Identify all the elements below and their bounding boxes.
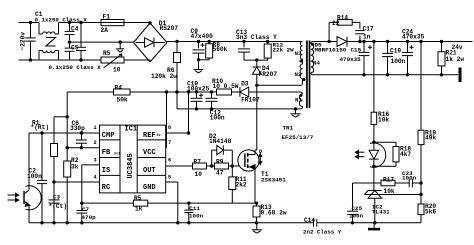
svg-text:MBRF10150: MBRF10150 [315, 47, 347, 54]
svg-text:5: 5 [168, 175, 171, 181]
svg-text:50k: 50k [117, 97, 128, 104]
svg-text:EF25/13/7: EF25/13/7 [282, 134, 314, 141]
svg-text:IS: IS [102, 167, 110, 175]
svg-text:FR107: FR107 [241, 97, 260, 104]
svg-text:R9: R9 [216, 159, 224, 166]
svg-text:6: 6 [168, 157, 171, 163]
svg-text:100x25: 100x25 [187, 85, 210, 92]
svg-text:F1: F1 [103, 14, 111, 21]
svg-text:47: 47 [216, 170, 224, 177]
svg-text:5k6: 5k6 [425, 209, 436, 216]
svg-text:24v: 24v [452, 44, 463, 51]
svg-text:2k2: 2k2 [236, 182, 247, 189]
svg-text:470x35: 470x35 [340, 56, 362, 63]
svg-text:UC3845: UC3845 [127, 153, 135, 178]
svg-text:R5: R5 [134, 195, 142, 202]
svg-text:47x400: 47x400 [191, 33, 214, 40]
svg-text:22k 2W: 22k 2W [273, 47, 295, 54]
svg-text:C17: C17 [363, 26, 374, 33]
svg-text:N2: N2 [295, 71, 302, 78]
svg-text:FB: FB [102, 149, 111, 157]
svg-text:10: 10 [195, 171, 203, 178]
svg-text:470x35: 470x35 [402, 34, 425, 41]
svg-text:REF: REF [143, 132, 156, 140]
svg-text:C7: C7 [82, 206, 90, 213]
svg-text:560k: 560k [213, 46, 228, 53]
svg-text:5v: 5v [157, 134, 161, 138]
svg-text:N3: N3 [295, 50, 302, 57]
svg-text:10k: 10k [378, 117, 389, 124]
svg-text:CMP: CMP [102, 132, 115, 140]
svg-text:0.1x250 Class X: 0.1x250 Class X [49, 64, 102, 71]
svg-text:N1: N1 [295, 97, 302, 104]
svg-text:49k: 49k [425, 135, 436, 142]
svg-text:2A: 2A [101, 27, 109, 34]
svg-text:*(Rt): *(Rt) [31, 124, 50, 131]
svg-text:100n: 100n [391, 58, 406, 65]
svg-text:~220v: ~220v [20, 32, 27, 51]
svg-text:C14: C14 [304, 217, 315, 224]
svg-text:1n: 1n [363, 34, 371, 41]
svg-text:0.68 2w: 0.68 2w [261, 209, 287, 216]
svg-text:100n: 100n [210, 114, 225, 121]
svg-text:1k: 1k [135, 206, 143, 213]
svg-text:120k 2w: 120k 2w [151, 73, 177, 80]
svg-text:*(Ct): *(Ct) [49, 203, 68, 210]
svg-text:2SK3451: 2SK3451 [261, 177, 286, 184]
svg-text:0.1x250 Class X: 0.1x250 Class X [35, 17, 88, 24]
svg-text:OUT: OUT [143, 167, 156, 175]
svg-text:330p: 330p [70, 125, 85, 132]
svg-text:8: 8 [168, 125, 171, 131]
svg-text:R5: R5 [103, 50, 111, 57]
svg-text:1k 2w: 1k 2w [446, 56, 465, 63]
svg-text:100n: 100n [349, 212, 364, 219]
svg-text:TR1: TR1 [283, 125, 294, 132]
svg-text:2n2 Class Y: 2n2 Class Y [303, 229, 342, 236]
svg-text:R4: R4 [115, 85, 123, 92]
svg-text:2v1: 2v1 [114, 153, 120, 157]
svg-text:RS207: RS207 [160, 25, 179, 32]
svg-text:10k: 10k [384, 188, 395, 195]
svg-text:100n: 100n [402, 175, 417, 182]
svg-text:1: 1 [94, 125, 97, 131]
svg-text:100n: 100n [189, 212, 204, 219]
svg-text:1N4148: 1N4148 [209, 138, 232, 145]
svg-text:GND: GND [143, 184, 156, 192]
svg-text:RC: RC [102, 184, 110, 192]
svg-text:2: 2 [94, 140, 97, 146]
svg-text:TL431: TL431 [372, 209, 390, 216]
svg-text:D3: D3 [241, 81, 249, 88]
svg-text:R7: R7 [194, 159, 202, 166]
svg-text:4: 4 [94, 175, 97, 181]
svg-text:IC1: IC1 [125, 125, 138, 133]
svg-text:3: 3 [94, 157, 97, 163]
svg-text:C11: C11 [189, 205, 200, 212]
svg-text:3k: 3k [71, 164, 79, 171]
svg-text:4k7: 4k7 [400, 151, 411, 158]
svg-text:22: 22 [332, 20, 340, 27]
svg-text:C25: C25 [352, 205, 363, 212]
svg-text:VCC: VCC [143, 149, 156, 157]
svg-text:C3: C3 [53, 194, 61, 201]
svg-text:3n3 Class Y: 3n3 Class Y [236, 34, 277, 41]
svg-text:C5: C5 [71, 45, 79, 52]
svg-text:7: 7 [168, 140, 171, 146]
svg-text:C4: C4 [71, 26, 79, 33]
svg-text:10 0.5W: 10 0.5W [213, 83, 239, 90]
svg-text:FR207: FR207 [259, 71, 278, 78]
svg-text:470p: 470p [82, 214, 97, 221]
svg-text:R17: R17 [383, 177, 394, 184]
svg-text:C19: C19 [390, 48, 401, 55]
svg-text:10: 10 [113, 67, 121, 74]
